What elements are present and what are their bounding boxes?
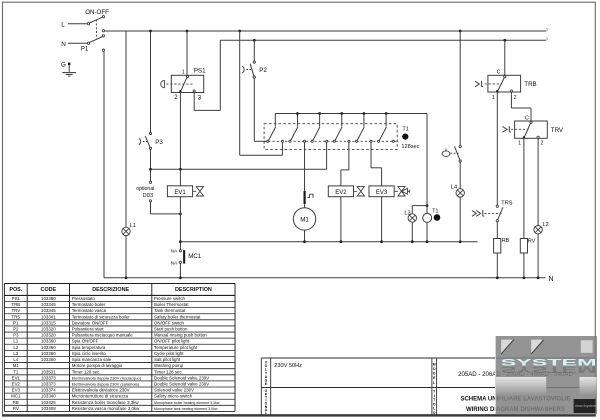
svg-text:2: 2 <box>514 95 517 101</box>
svg-text:TRB: TRB <box>524 81 536 88</box>
svg-text:E: E <box>265 382 268 386</box>
svg-text:Pressostato: Pressostato <box>72 296 96 301</box>
svg-text:103320: 103320 <box>41 327 56 332</box>
svg-text:C: C <box>497 70 501 76</box>
svg-text:Boiler Thermostat: Boiler Thermostat <box>154 302 189 307</box>
svg-text:Double Solenoid valve 230V: Double Solenoid valve 230V <box>154 381 209 386</box>
svg-text:Safety micro-switch: Safety micro-switch <box>154 394 193 399</box>
svg-text:Timer 128 sec.: Timer 128 sec. <box>72 369 101 374</box>
svg-text:G: G <box>61 61 66 68</box>
svg-text:103531: 103531 <box>41 369 56 374</box>
svg-text:Cycle pilot light: Cycle pilot light <box>154 351 184 356</box>
svg-text:103408: 103408 <box>41 406 56 411</box>
svg-text:Deviatore ON/OFF: Deviatore ON/OFF <box>72 320 109 325</box>
svg-text:Termostato vasca: Termostato vasca <box>72 308 107 313</box>
svg-text:DESCRIPTION: DESCRIPTION <box>175 287 212 293</box>
svg-text:Spia mancanza sale: Spia mancanza sale <box>72 357 112 362</box>
svg-text:P3: P3 <box>13 333 19 338</box>
svg-text:CODE: CODE <box>41 287 57 293</box>
svg-text:L: L <box>61 21 65 28</box>
svg-text:103373: 103373 <box>41 381 56 386</box>
svg-text:230V 50Hz: 230V 50Hz <box>274 363 302 369</box>
svg-text:Spia ON/OFF: Spia ON/OFF <box>72 339 99 344</box>
svg-text:RB: RB <box>502 238 510 244</box>
svg-text:T1: T1 <box>13 369 19 374</box>
svg-text:Spia temperatura: Spia temperatura <box>72 345 106 350</box>
svg-text:DD3: DD3 <box>143 193 153 199</box>
svg-text:Double Solenoid valve 230V: Double Solenoid valve 230V <box>154 375 209 380</box>
svg-text:Start push botton: Start push botton <box>154 327 188 332</box>
svg-text:N: N <box>61 41 66 48</box>
svg-text:103340: 103340 <box>41 394 56 399</box>
svg-text:P3: P3 <box>155 139 163 146</box>
svg-text:Solenoid valve 230V: Solenoid valve 230V <box>154 388 194 393</box>
svg-text:L2: L2 <box>13 345 18 350</box>
svg-text:PS1: PS1 <box>12 296 21 301</box>
svg-text:Monophase boiler heating eleme: Monophase boiler heating element 3,3kw <box>154 401 220 405</box>
svg-text:EV3: EV3 <box>376 190 388 196</box>
svg-text:Microinterruttore di sicurezza: Microinterruttore di sicurezza <box>72 394 129 399</box>
svg-text:Tank thermostat: Tank thermostat <box>154 308 186 313</box>
svg-text:103341: 103341 <box>41 314 56 319</box>
svg-text:Salt pilot light: Salt pilot light <box>154 357 181 362</box>
svg-text:POS.: POS. <box>9 287 22 293</box>
svg-text:L4: L4 <box>451 185 457 191</box>
svg-text:TRB: TRB <box>11 302 20 307</box>
svg-text:L: L <box>265 411 267 415</box>
svg-text:O: O <box>433 411 436 415</box>
svg-text:103315: 103315 <box>41 320 56 325</box>
svg-text:TRS: TRS <box>501 200 512 206</box>
svg-text:1: 1 <box>182 69 185 75</box>
svg-text:Safety boiler thermostat: Safety boiler thermostat <box>154 314 201 319</box>
svg-text:EV1: EV1 <box>12 375 21 380</box>
svg-text:128sec: 128sec <box>401 144 419 150</box>
svg-text:P2: P2 <box>259 67 267 74</box>
svg-text:Pulsantiera start: Pulsantiera start <box>72 327 105 332</box>
svg-text:Elettrovalvola deviatrice 230V: Elettrovalvola deviatrice 230V <box>72 388 130 393</box>
svg-text:Elettrovalvola doppia 230V (ri: Elettrovalvola doppia 230V (risciacquo) <box>72 375 142 380</box>
svg-text:EV2: EV2 <box>12 381 21 386</box>
svg-text:RV: RV <box>13 406 19 411</box>
svg-text:N: N <box>549 276 554 283</box>
svg-text:1: 1 <box>492 95 495 101</box>
svg-text:103345: 103345 <box>41 302 56 307</box>
svg-text:ON/OFF switch: ON/OFF switch <box>154 320 185 325</box>
svg-text:Pulsantiera risciacquo manuale: Pulsantiera risciacquo manuale <box>72 333 134 338</box>
svg-text:Monophase tank heating element: Monophase tank heating element 3,0kw <box>154 407 218 411</box>
svg-text:PS1: PS1 <box>194 67 206 74</box>
svg-text:Termostato di sicurezza boiler: Termostato di sicurezza boiler <box>72 314 131 319</box>
svg-text:O: O <box>433 367 436 371</box>
svg-text:ON-OFF: ON-OFF <box>85 9 109 16</box>
svg-text:L1: L1 <box>130 223 136 229</box>
svg-text:103360: 103360 <box>41 351 56 356</box>
svg-text:Termostato boiler: Termostato boiler <box>72 302 106 307</box>
svg-text:103360: 103360 <box>41 357 56 362</box>
svg-text:RV: RV <box>528 239 536 245</box>
svg-text:103360: 103360 <box>41 345 56 350</box>
svg-text:Pressure switch: Pressure switch <box>154 296 186 301</box>
svg-text:Resistenza boiler monofase 3,3: Resistenza boiler monofase 3,3kw <box>72 400 140 405</box>
svg-text:M: M <box>433 362 436 366</box>
svg-text:L4: L4 <box>13 357 18 362</box>
svg-text:P1: P1 <box>81 45 89 52</box>
svg-text:103360: 103360 <box>41 339 56 344</box>
svg-text:P2: P2 <box>13 327 19 332</box>
svg-text:TRS: TRS <box>11 314 20 319</box>
svg-text:103345: 103345 <box>41 308 56 313</box>
svg-text:2: 2 <box>541 140 544 146</box>
svg-text:SYSTEM: SYSTEM <box>500 364 596 374</box>
svg-text:DESCRIZIONE: DESCRIZIONE <box>92 287 129 293</box>
svg-text:T1: T1 <box>402 127 409 133</box>
svg-text:D: D <box>433 372 436 376</box>
svg-text:TRV: TRV <box>11 308 20 313</box>
svg-text:Resistenza vasca monofase 3,0k: Resistenza vasca monofase 3,0kw <box>72 406 140 411</box>
svg-text:Spia ciclo inserito: Spia ciclo inserito <box>72 351 107 356</box>
svg-text:3: 3 <box>198 95 202 101</box>
svg-text:MC1: MC1 <box>188 253 202 260</box>
svg-text:www.4system: www.4system <box>575 404 596 408</box>
svg-text:103373: 103373 <box>41 375 56 380</box>
svg-text:Motore pompa di lavaggio: Motore pompa di lavaggio <box>72 363 123 368</box>
svg-text:MC1: MC1 <box>11 394 21 399</box>
svg-text:EV1: EV1 <box>174 190 186 196</box>
svg-text:EV3: EV3 <box>12 388 21 393</box>
svg-text:Elettrovalvola doppia 230V (sa: Elettrovalvola doppia 230V (salamoia) <box>72 381 140 386</box>
svg-text:E: E <box>433 376 436 380</box>
svg-text:NA: NA <box>171 248 178 253</box>
svg-text:Washing pump: Washing pump <box>154 363 184 368</box>
svg-text:T1: T1 <box>432 209 438 215</box>
svg-text:Temperature pilot light: Temperature pilot light <box>154 345 198 350</box>
svg-text:L: L <box>433 381 435 385</box>
svg-text:RB: RB <box>13 400 19 405</box>
svg-text:M1: M1 <box>13 363 20 368</box>
svg-text:EV2: EV2 <box>335 190 347 196</box>
svg-text:L3: L3 <box>13 351 18 356</box>
svg-text:L2: L2 <box>543 222 549 228</box>
svg-text:L3: L3 <box>404 210 410 216</box>
svg-text:103380: 103380 <box>41 296 56 301</box>
svg-text:NA: NA <box>171 260 178 265</box>
svg-text:ON/OFF pilot light: ON/OFF pilot light <box>154 339 190 344</box>
svg-text:optional: optional <box>136 186 154 192</box>
svg-text:2: 2 <box>174 95 178 101</box>
svg-text:P1: P1 <box>13 320 19 325</box>
svg-text:M1: M1 <box>300 216 309 223</box>
svg-text:103374: 103374 <box>41 388 56 393</box>
svg-text:103320: 103320 <box>41 333 56 338</box>
svg-text:C: C <box>525 115 529 121</box>
svg-text:Manual rinsing push botton: Manual rinsing push botton <box>154 333 207 338</box>
svg-text:Timer 128 sec.: Timer 128 sec. <box>154 369 183 374</box>
svg-text:1: 1 <box>518 140 521 146</box>
svg-text:L1: L1 <box>13 339 18 344</box>
svg-text:103425: 103425 <box>41 400 56 405</box>
svg-text:TRV: TRV <box>551 127 564 134</box>
